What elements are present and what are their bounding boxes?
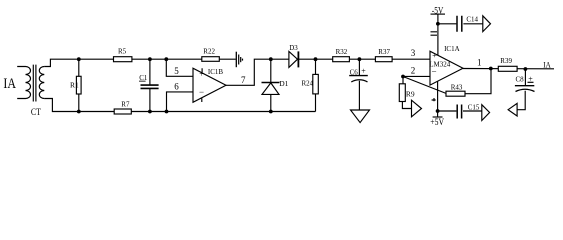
svg-text:R9: R9 [406,90,415,99]
svg-text:+: + [361,66,366,75]
svg-text:−: − [431,67,436,77]
svg-text:+: + [528,74,533,83]
svg-text:6: 6 [174,82,179,92]
svg-text:R5: R5 [118,48,127,56]
svg-text:R24: R24 [302,80,314,88]
svg-text:D3: D3 [289,44,298,52]
svg-text:IC1A: IC1A [444,45,460,53]
svg-text:2: 2 [411,66,416,76]
svg-text:R39: R39 [500,57,512,65]
svg-text:3: 3 [411,48,416,58]
svg-text:+5V: +5V [430,117,444,127]
svg-text:IA: IA [3,76,16,92]
svg-text:R7: R7 [121,100,130,108]
svg-text:-5V: -5V [432,5,444,15]
svg-text:C15: C15 [468,104,480,112]
svg-text:1: 1 [477,57,482,67]
svg-text:5: 5 [174,66,179,76]
svg-text:+: + [199,69,204,79]
svg-text:R32: R32 [336,48,348,56]
svg-text:C14: C14 [466,15,478,23]
svg-text:D1: D1 [279,79,288,88]
svg-text:R37: R37 [378,48,390,56]
svg-text:C8: C8 [516,76,525,84]
svg-text:R22: R22 [203,47,215,55]
svg-text:IC1B: IC1B [208,68,224,76]
svg-text:R43: R43 [451,84,463,92]
svg-text:IA: IA [543,60,551,70]
svg-text:C6: C6 [350,69,359,77]
svg-text:−: − [199,87,204,97]
svg-text:R1: R1 [70,81,79,90]
svg-text:CT: CT [31,108,41,118]
svg-text:+: + [432,50,437,60]
svg-text:7: 7 [241,75,246,85]
